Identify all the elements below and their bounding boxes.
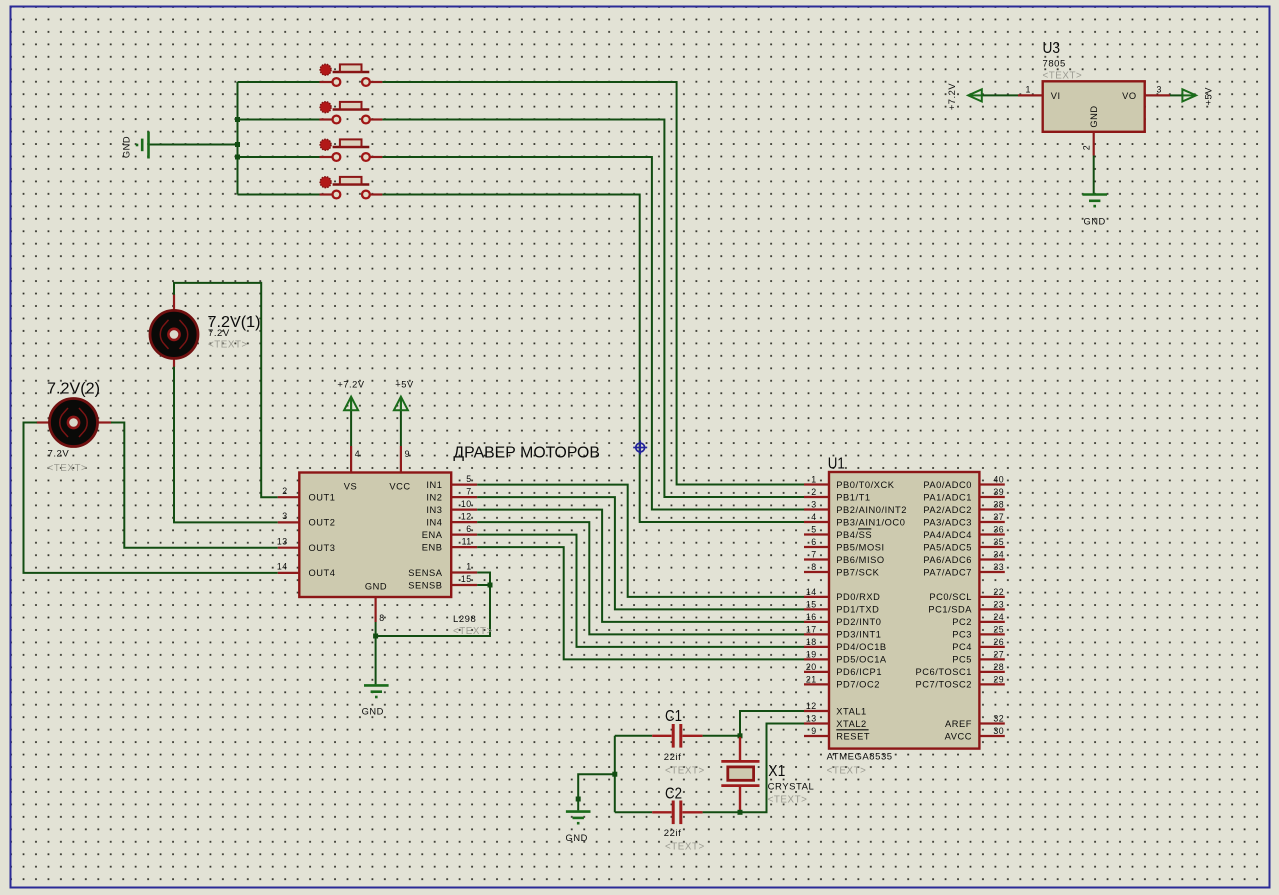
- L298 pin 1 SENSA: [408, 562, 477, 578]
- wire C1-C2 vertical: [614, 736, 616, 813]
- svg-text:ENA: ENA: [422, 530, 443, 540]
- L298 pin 14 OUT4: [277, 562, 336, 579]
- svg-text:22if: 22if: [664, 752, 682, 763]
- U1 pin 22 PC0/SCL: [929, 587, 1004, 602]
- wire +5V terminal to L298 VCC: [400, 398, 402, 446]
- svg-text:C2: C2: [665, 786, 682, 803]
- svg-text:GND: GND: [122, 136, 132, 158]
- svg-text:PA5/ADC5: PA5/ADC5: [923, 542, 972, 552]
- wire GND to button trunk: [149, 144, 238, 146]
- svg-text:3: 3: [1157, 85, 1162, 95]
- svg-text:PD3/INT1: PD3/INT1: [836, 630, 881, 640]
- L298 pin 9 VCC stub: [400, 446, 402, 473]
- wire caps to ground: [578, 774, 615, 810]
- wire C2 junction to U1 XTAL2: [740, 724, 804, 813]
- svg-text:X1: X1: [768, 763, 785, 780]
- power terminal +5V (right arrow): [1182, 89, 1196, 101]
- svg-text:39: 39: [993, 487, 1004, 497]
- motor M1 7.2V(1): [150, 310, 198, 358]
- svg-text:L298: L298: [453, 614, 476, 625]
- L298 pin 13 OUT3: [277, 537, 336, 554]
- svg-text:IN2: IN2: [426, 492, 442, 502]
- svg-text:PC1/SDA: PC1/SDA: [928, 605, 972, 615]
- svg-text:PA4/ADC4: PA4/ADC4: [923, 530, 972, 540]
- svg-text:+5V: +5V: [395, 380, 414, 390]
- wire trunk to button 4: [238, 194, 321, 196]
- wire U3 GND pin to ground: [1093, 156, 1095, 194]
- power terminal +5V (L298 VCC): [394, 397, 408, 411]
- U1 pin 27 PC5: [952, 649, 1005, 664]
- push button 1: [320, 64, 383, 86]
- U1 pin 6 PB5/MOSI: [804, 537, 885, 552]
- U3 pin 2 stub: [1093, 132, 1095, 156]
- svg-text:7: 7: [811, 550, 816, 560]
- driver U2 L298 body: [299, 473, 451, 598]
- svg-text:14: 14: [806, 587, 817, 597]
- svg-text:PB1/T1: PB1/T1: [836, 492, 870, 502]
- U1 pin 32 AREF: [945, 714, 1005, 729]
- svg-text:<TEXT>: <TEXT>: [453, 626, 493, 637]
- svg-text:PD6/ICP1: PD6/ICP1: [836, 667, 882, 677]
- svg-text:1: 1: [1026, 85, 1031, 95]
- wire trunk to button 2: [238, 119, 321, 121]
- svg-text:37: 37: [993, 512, 1004, 522]
- L298 pin 5 IN1: [426, 474, 477, 490]
- svg-text:<TEXT>: <TEXT>: [768, 794, 808, 805]
- U1 pin 8 PB7/SCK: [804, 562, 880, 577]
- svg-text:PD2/INT0: PD2/INT0: [836, 617, 881, 627]
- svg-text:PA0/ADC0: PA0/ADC0: [923, 480, 972, 490]
- U1 pin 26 PC4: [952, 637, 1005, 652]
- svg-text:25: 25: [993, 624, 1004, 634]
- svg-text:9: 9: [811, 726, 816, 736]
- svg-text:7.2V: 7.2V: [208, 328, 230, 339]
- wire SENSB to vertical: [477, 584, 490, 586]
- svg-text:VS: VS: [344, 482, 358, 492]
- svg-text:12: 12: [806, 701, 817, 711]
- U1 pin 7 PB6/MISO: [804, 550, 885, 565]
- U1 pin 24 PC2: [952, 612, 1005, 627]
- svg-text:34: 34: [993, 550, 1004, 560]
- U1 pin 4 PB3/AIN1/OC0: [804, 512, 905, 527]
- svg-text:33: 33: [993, 562, 1004, 572]
- push button 2: [320, 102, 383, 124]
- L298 pin 11 ENB: [422, 536, 477, 552]
- svg-text:21: 21: [806, 674, 817, 684]
- svg-text:38: 38: [993, 500, 1004, 510]
- wire SENSA/SENSB to GND junction: [376, 573, 490, 637]
- svg-text:PA7/ADC7: PA7/ADC7: [923, 567, 972, 577]
- U1 pin 13 XTAL2: [804, 714, 867, 729]
- U1 pin 9 RESET: [804, 726, 870, 741]
- svg-text:40: 40: [993, 475, 1004, 485]
- svg-text:ENB: ENB: [422, 542, 443, 552]
- svg-text:C1: C1: [665, 708, 682, 725]
- svg-text:U1: U1: [828, 456, 845, 473]
- voltage regulator U3 body: [1043, 81, 1145, 132]
- svg-text:PC6/TOSC1: PC6/TOSC1: [916, 667, 972, 677]
- power terminal +7.2V (L298 VS): [344, 397, 358, 411]
- U1 pin 23 PC1/SDA: [928, 599, 1004, 614]
- U1 pin 2 PB1/T1: [804, 487, 871, 502]
- wire motor M2 - to L298 OUT4: [24, 423, 278, 573]
- wire motor M1 + to L298 OUT1: [174, 283, 278, 497]
- svg-text:PD7/OC2: PD7/OC2: [836, 680, 880, 690]
- junction ground terminal: [576, 797, 581, 802]
- svg-text:PB2/AIN0/INT2: PB2/AIN0/INT2: [836, 505, 907, 515]
- svg-text:12: 12: [461, 511, 472, 521]
- svg-text:9: 9: [405, 449, 410, 459]
- junction trunk row3: [235, 155, 240, 160]
- svg-text:+7.2V: +7.2V: [337, 380, 365, 390]
- svg-text:2: 2: [811, 487, 816, 497]
- svg-text:PB7/SCK: PB7/SCK: [836, 567, 879, 577]
- U1 pin 19 PD5/OC1A: [804, 649, 887, 664]
- svg-text:OUT3: OUT3: [309, 543, 336, 553]
- svg-text:1: 1: [811, 475, 816, 485]
- wire L298 IN4 to U1 PD3: [477, 522, 804, 634]
- svg-text:ATMEGA8535: ATMEGA8535: [827, 752, 893, 763]
- wire left of C1: [615, 735, 652, 737]
- wire button 4 to U1 PB3: [382, 195, 804, 523]
- svg-text:2: 2: [1082, 145, 1092, 150]
- U1 pin 5 PB4/SS: [804, 525, 872, 540]
- svg-text:AVCC: AVCC: [945, 731, 972, 741]
- svg-text:4: 4: [811, 512, 816, 522]
- svg-text:2: 2: [282, 486, 287, 496]
- svg-text:OUT1: OUT1: [309, 493, 336, 503]
- svg-text:3: 3: [811, 500, 816, 510]
- wire button 1 to U1 PB0: [382, 82, 804, 485]
- svg-text:GND: GND: [362, 707, 384, 717]
- L298 pin 7 IN2: [426, 486, 477, 502]
- wire trunk to button 3: [238, 156, 321, 158]
- svg-text:10: 10: [461, 499, 472, 509]
- svg-text:PA1/ADC1: PA1/ADC1: [923, 492, 972, 502]
- svg-text:GND: GND: [1089, 105, 1099, 127]
- svg-text:PB0/T0/XCK: PB0/T0/XCK: [836, 480, 894, 490]
- origin marker: [633, 441, 647, 455]
- svg-text:PB6/MISO: PB6/MISO: [836, 555, 884, 565]
- svg-text:7: 7: [466, 486, 471, 496]
- motor M1 pin leads: [173, 294, 175, 367]
- junction C1 / crystal / XTAL1: [738, 733, 743, 738]
- svg-text:GND: GND: [566, 833, 588, 843]
- svg-text:15: 15: [461, 574, 472, 584]
- U1 pin 34 PA6/ADC6: [923, 550, 1004, 565]
- wire button 3 to U1 PB2: [382, 157, 804, 510]
- L298 pin 2 OUT1: [278, 486, 336, 503]
- svg-text:1: 1: [466, 562, 471, 572]
- L298 pin 10 IN3: [426, 499, 477, 515]
- svg-text:<TEXT>: <TEXT>: [665, 765, 705, 776]
- svg-text:GND: GND: [365, 582, 387, 592]
- svg-text:PD1/TXD: PD1/TXD: [836, 605, 879, 615]
- svg-text:PC7/TOSC2: PC7/TOSC2: [916, 680, 972, 690]
- svg-text:13: 13: [806, 714, 817, 724]
- svg-text:28: 28: [993, 662, 1004, 672]
- svg-text:8: 8: [811, 562, 816, 572]
- U3 pin 3 stub: [1145, 94, 1170, 96]
- U1 pin 40 PA0/ADC0: [923, 475, 1004, 490]
- U1 pin 16 PD2/INT0: [804, 612, 882, 627]
- svg-text:17: 17: [806, 624, 817, 634]
- wire +7.2V terminal to L298 VS: [350, 398, 352, 446]
- svg-text:PB4/SS: PB4/SS: [836, 530, 872, 540]
- svg-text:VO: VO: [1122, 91, 1137, 101]
- wire U3 VO to +5V terminal: [1170, 94, 1182, 96]
- svg-text:AREF: AREF: [945, 719, 972, 729]
- svg-text:20: 20: [806, 662, 817, 672]
- junction caps to ground: [612, 772, 617, 777]
- svg-text:VCC: VCC: [389, 482, 410, 492]
- U3 pin 1 stub: [1018, 94, 1043, 96]
- svg-text:18: 18: [806, 637, 817, 647]
- L298 pin 8 GND stub: [375, 597, 377, 622]
- svg-text:<TEXT>: <TEXT>: [665, 842, 705, 853]
- wire L298 ENB to U1 PD5: [477, 547, 804, 659]
- svg-text:SENSB: SENSB: [408, 580, 442, 590]
- svg-text:7805: 7805: [1043, 59, 1066, 70]
- svg-text:VI: VI: [1051, 91, 1061, 101]
- svg-text:19: 19: [806, 649, 817, 659]
- motor M2 7.2V(2): [50, 399, 98, 447]
- svg-text:+5V: +5V: [1204, 87, 1214, 106]
- svg-text:3: 3: [282, 511, 287, 521]
- U1 pin 18 PD4/OC1B: [804, 637, 887, 652]
- svg-text:<TEXT>: <TEXT>: [827, 765, 867, 776]
- U1 pin 25 PC3: [952, 624, 1005, 639]
- svg-text:11: 11: [462, 536, 472, 546]
- L298 pin 6 ENA: [422, 524, 477, 540]
- svg-text:PC2: PC2: [952, 617, 972, 627]
- svg-text:26: 26: [993, 637, 1004, 647]
- svg-text:SENSA: SENSA: [408, 568, 443, 578]
- svg-text:ДРАВЕР МОТОРОВ: ДРАВЕР МОТОРОВ: [453, 445, 600, 462]
- U1 pin 14 PD0/RXD: [804, 587, 880, 602]
- svg-text:<TEXT>: <TEXT>: [48, 463, 88, 474]
- power terminal +7.2V (left arrow): [968, 89, 982, 101]
- svg-text:GND: GND: [1083, 216, 1105, 226]
- U1 pin 39 PA1/ADC1: [923, 487, 1004, 502]
- wire L298 ENA to U1 PD4: [477, 535, 804, 647]
- U1 pin 37 PA3/ADC3: [923, 512, 1004, 527]
- svg-text:PC3: PC3: [952, 630, 972, 640]
- wire +7.2V terminal to U3 VI: [982, 94, 1018, 96]
- svg-text:36: 36: [993, 525, 1004, 535]
- U1 pin 38 PA2/ADC2: [923, 500, 1004, 515]
- svg-text:PC4: PC4: [952, 642, 972, 652]
- push button 3: [320, 139, 383, 161]
- svg-text:XTAL2: XTAL2: [836, 719, 866, 729]
- svg-text:<TEXT>: <TEXT>: [1043, 71, 1083, 82]
- svg-text:PB3/AIN1/OC0: PB3/AIN1/OC0: [836, 517, 905, 527]
- svg-text:23: 23: [993, 599, 1004, 609]
- U1 pin 29 PC7/TOSC2: [916, 674, 1005, 689]
- svg-text:7.2V: 7.2V: [48, 449, 70, 460]
- wire right of C2: [703, 811, 740, 813]
- wire L298 IN2 to U1 PD1: [477, 497, 804, 609]
- svg-text:6: 6: [466, 524, 471, 534]
- junction L298 GND / SENS: [373, 634, 378, 639]
- junction SENSB: [488, 583, 493, 588]
- wire motor M1 - to L298 OUT2: [174, 367, 278, 523]
- capacitor C1: [652, 724, 702, 748]
- svg-text:<TEXT>: <TEXT>: [208, 340, 248, 351]
- ground (button common): [137, 132, 149, 159]
- U1 pin 30 AVCC: [945, 726, 1005, 741]
- ground (U3): [1082, 195, 1107, 207]
- wire motor M2 + to L298 OUT3: [111, 423, 278, 548]
- U1 pin 15 PD1/TXD: [804, 599, 879, 614]
- svg-text:PD0/RXD: PD0/RXD: [836, 592, 880, 602]
- ground (crystal caps): [566, 812, 591, 824]
- svg-text:32: 32: [993, 714, 1004, 724]
- svg-text:XTAL1: XTAL1: [836, 706, 866, 716]
- svg-text:7.2V(2): 7.2V(2): [47, 381, 100, 398]
- motor M2 pin leads: [37, 421, 112, 423]
- svg-text:PA6/ADC6: PA6/ADC6: [923, 555, 972, 565]
- svg-text:IN1: IN1: [426, 480, 442, 490]
- wire left of C2: [615, 811, 652, 813]
- svg-text:RESET: RESET: [836, 731, 870, 741]
- svg-text:PC5: PC5: [952, 655, 972, 665]
- U1 pin 35 PA5/ADC5: [923, 537, 1004, 552]
- svg-text:PD4/OC1B: PD4/OC1B: [836, 642, 886, 652]
- U1 pin 36 PA4/ADC4: [923, 525, 1004, 540]
- ground (L298): [364, 685, 389, 697]
- svg-text:IN3: IN3: [426, 505, 442, 515]
- svg-text:PA3/ADC3: PA3/ADC3: [923, 517, 972, 527]
- U1 pin 12 XTAL1: [804, 701, 867, 716]
- svg-text:22if: 22if: [664, 828, 682, 839]
- svg-text:4: 4: [355, 449, 360, 459]
- svg-text:13: 13: [277, 537, 288, 547]
- svg-text:6: 6: [811, 537, 816, 547]
- U1 pin 3 PB2/AIN0/INT2: [804, 500, 907, 515]
- U1 pin 33 PA7/ADC7: [923, 562, 1004, 577]
- svg-text:+7.2V: +7.2V: [947, 83, 957, 111]
- svg-text:22: 22: [993, 587, 1004, 597]
- svg-text:24: 24: [993, 612, 1004, 622]
- svg-text:PA2/ADC2: PA2/ADC2: [923, 505, 972, 515]
- svg-text:30: 30: [993, 726, 1004, 736]
- MCU U1 ATMEGA8535 body: [829, 472, 979, 749]
- wire L298 IN3 to U1 PD2: [477, 510, 804, 622]
- wire right of C1: [703, 735, 740, 737]
- L298 pin 3 OUT2: [278, 511, 336, 528]
- L298 pin 15 SENSB: [408, 574, 477, 590]
- wire button 2 to U1 PB1: [382, 120, 804, 498]
- wire C1 junction to U1 XTAL1: [740, 711, 804, 736]
- wire button trunk vertical: [237, 82, 239, 195]
- svg-text:5: 5: [811, 525, 816, 535]
- junction trunk row2: [235, 117, 240, 122]
- U1 pin 21 PD7/OC2: [804, 674, 880, 689]
- push button 4: [320, 177, 383, 199]
- L298 pin 4 VS stub: [350, 446, 352, 473]
- svg-text:35: 35: [993, 537, 1004, 547]
- wire trunk to button 1: [238, 81, 321, 83]
- svg-text:29: 29: [993, 674, 1004, 684]
- svg-text:CRYSTAL: CRYSTAL: [768, 782, 815, 793]
- U1 pin 28 PC6/TOSC1: [916, 662, 1005, 677]
- svg-text:PB5/MOSI: PB5/MOSI: [836, 542, 884, 552]
- junction C2 / crystal / XTAL2: [738, 810, 743, 815]
- svg-text:U3: U3: [1043, 40, 1061, 57]
- svg-text:27: 27: [993, 649, 1004, 659]
- svg-text:15: 15: [806, 599, 817, 609]
- junction trunk GND: [235, 142, 240, 147]
- svg-text:PC0/SCL: PC0/SCL: [929, 592, 972, 602]
- capacitor C2: [652, 801, 702, 825]
- svg-text:16: 16: [806, 612, 817, 622]
- svg-text:OUT2: OUT2: [309, 518, 336, 528]
- L298 pin 12 IN4: [426, 511, 477, 527]
- svg-text:14: 14: [277, 562, 288, 572]
- U1 pin 17 PD3/INT1: [804, 624, 882, 639]
- wire L298 GND pin to junction: [375, 622, 377, 684]
- crystal X1: [721, 737, 759, 811]
- svg-text:OUT4: OUT4: [309, 568, 336, 578]
- svg-text:PD5/OC1A: PD5/OC1A: [836, 655, 887, 665]
- wire L298 IN1 to U1 PD0: [477, 485, 804, 597]
- svg-text:8: 8: [379, 613, 384, 623]
- svg-text:5: 5: [466, 474, 471, 484]
- svg-text:IN4: IN4: [426, 517, 442, 527]
- U1 pin 20 PD6/ICP1: [804, 662, 882, 677]
- U1 pin 1 PB0/T0/XCK: [804, 475, 895, 490]
